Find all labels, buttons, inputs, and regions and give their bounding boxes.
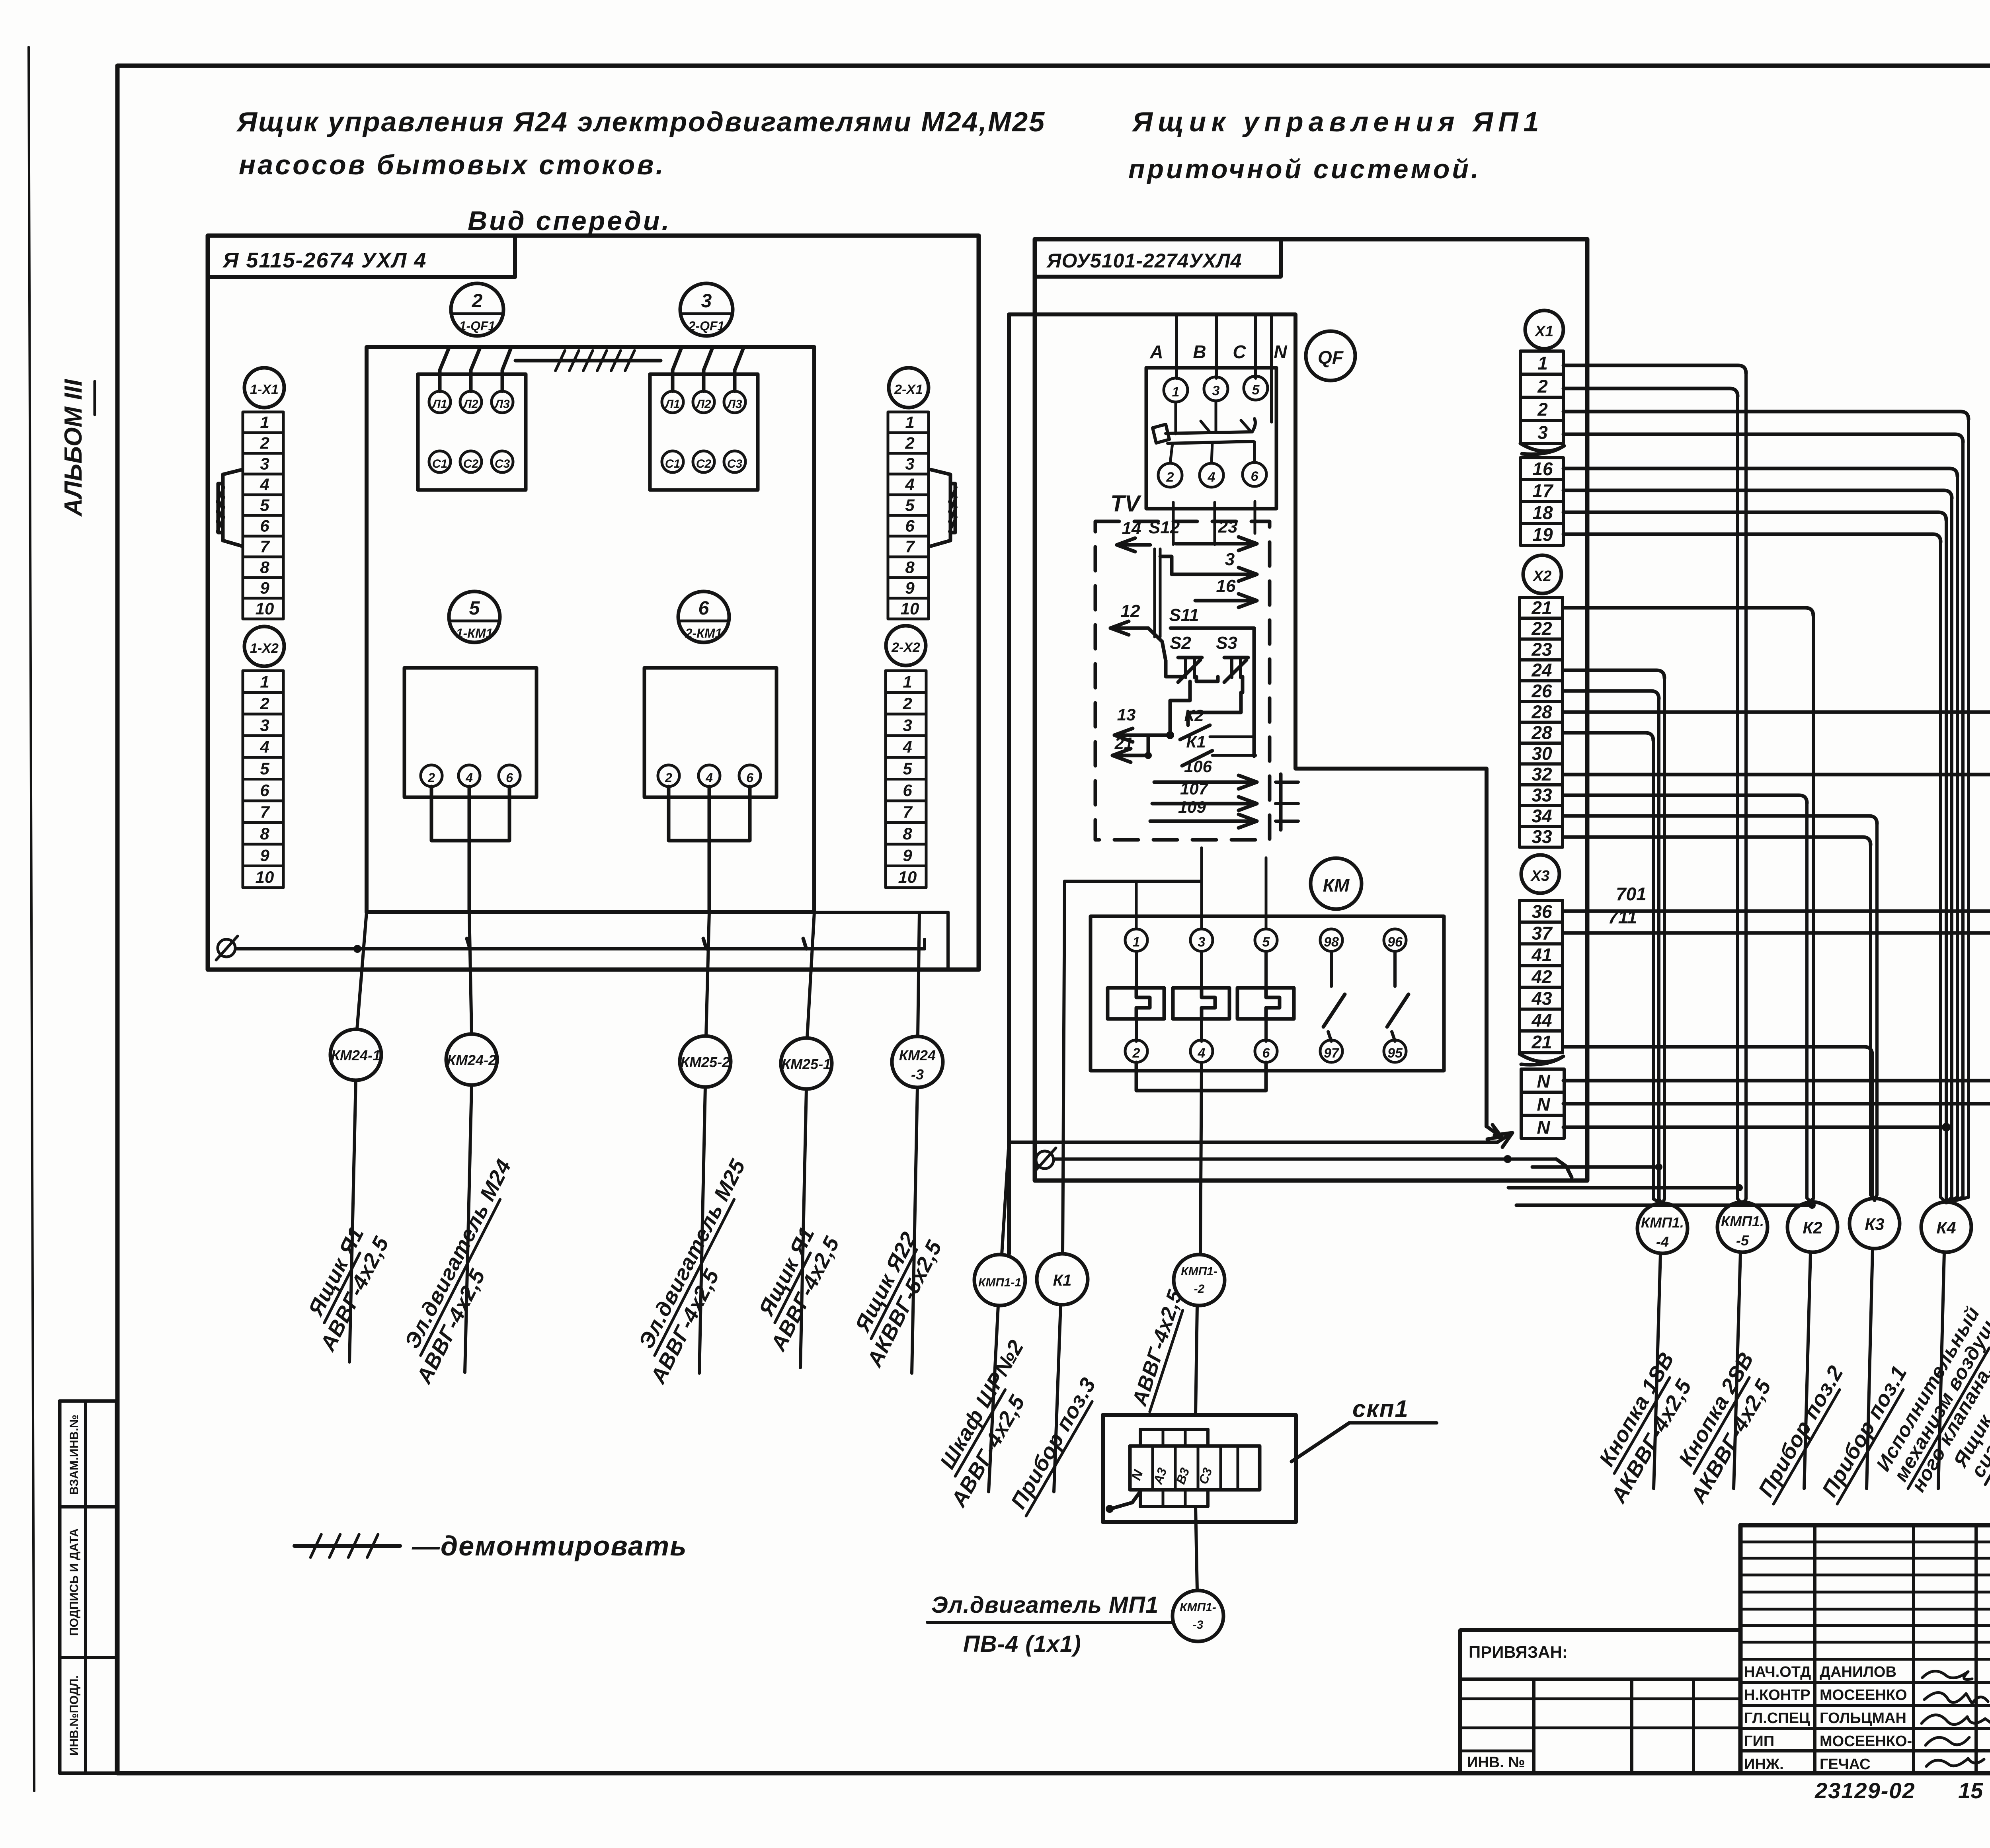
phase wires into QF <box>1175 314 1178 378</box>
svg-text:КМ24-2: КМ24-2 <box>447 1052 496 1068</box>
svg-text:N: N <box>1274 341 1287 362</box>
label box ЯОУ5101-2274УХЛ4 <box>1035 239 1281 277</box>
svg-text:-3: -3 <box>911 1066 924 1083</box>
wire crossing marks on ground bus <box>353 945 361 953</box>
svg-text:19: 19 <box>1532 524 1553 545</box>
svg-text:-3: -3 <box>1193 1618 1204 1631</box>
svg-text:2-Х2: 2-Х2 <box>891 640 920 655</box>
title block grid left <box>1740 1525 1990 1773</box>
wire below К3 <box>1867 1249 1873 1489</box>
svg-text:26: 26 <box>1531 681 1552 701</box>
svg-text:9: 9 <box>903 846 912 865</box>
svg-text:2: 2 <box>665 771 672 785</box>
КМ auxiliary contacts <box>1330 952 1333 986</box>
terminal strip X1 group B <box>1520 458 1563 480</box>
svg-text:К2: К2 <box>1803 1218 1822 1237</box>
contactor box 1-КМ1 <box>404 668 537 797</box>
svg-text:12: 12 <box>1121 601 1140 621</box>
svg-text:5: 5 <box>469 598 480 619</box>
svg-text:28: 28 <box>1531 722 1552 743</box>
svg-text:13: 13 <box>1117 705 1136 724</box>
svg-text:4: 4 <box>1198 1046 1206 1061</box>
svg-text:-2: -2 <box>1194 1282 1205 1296</box>
svg-text:10: 10 <box>256 599 274 618</box>
arrow 16 (right) <box>1195 599 1257 603</box>
wire below К2 <box>1804 1253 1811 1489</box>
svg-text:скп1: скп1 <box>1352 1395 1409 1422</box>
svg-text:КМ: КМ <box>1323 875 1350 896</box>
svg-text:34: 34 <box>1532 806 1552 826</box>
svg-text:S11: S11 <box>1169 605 1199 625</box>
page left scan edge line <box>29 47 34 1791</box>
inner frame of ЯОУ5101 (stepped) <box>1009 314 1487 1254</box>
comb connector right of TV <box>1279 774 1283 830</box>
svg-text:41: 41 <box>1531 944 1552 965</box>
svg-text:4: 4 <box>259 475 269 494</box>
svg-text:Х2: Х2 <box>1532 568 1551 585</box>
terminal strip X1 group A <box>1520 351 1563 374</box>
QF switch bar <box>1166 432 1252 433</box>
svg-text:TV: TV <box>1110 491 1141 517</box>
label box Я5115-2674УХЛ4 <box>208 236 515 277</box>
svg-text:17: 17 <box>1532 480 1554 501</box>
svg-text:3: 3 <box>1225 550 1235 569</box>
cable circle КМ24-2 <box>446 1034 497 1085</box>
svg-text:5: 5 <box>903 759 912 778</box>
svg-text:Ящик управления Я24 электродви: Ящик управления Я24 электродвигателями М… <box>236 106 1046 137</box>
svg-text:КМП1.: КМП1. <box>1641 1214 1684 1231</box>
СКП1 terminal block <box>1130 1446 1260 1490</box>
svg-text:Л1: Л1 <box>664 398 680 411</box>
cable circle КМП1-4 <box>1637 1203 1688 1253</box>
break squiggle X3 <box>1520 1054 1563 1065</box>
svg-text:33: 33 <box>1532 785 1552 806</box>
svg-text:3: 3 <box>260 455 269 473</box>
terminal strip 1-X2 <box>243 671 283 693</box>
svg-text:ВЗАМ.ИНВ.№: ВЗАМ.ИНВ.№ <box>68 1415 81 1495</box>
svg-text:10: 10 <box>901 599 919 618</box>
terminal strip N cells <box>1521 1069 1564 1092</box>
terminal strip 1-X2 header circle <box>244 626 284 666</box>
dashed box TV <box>1095 521 1270 840</box>
cable circle КМП1-3 <box>1173 1590 1223 1641</box>
bottom junction wires to drops <box>1532 1167 1659 1200</box>
cable label Исполнительный механизм воздушного клапана <box>1872 1303 1984 1475</box>
КМ bottom terminals <box>1125 1040 1147 1062</box>
svg-text:Ящик управления ЯП1: Ящик управления ЯП1 <box>1132 106 1544 137</box>
terminal strip X2 <box>1520 597 1563 618</box>
svg-text:насосов бытовых стоков.: насосов бытовых стоков. <box>239 149 665 180</box>
svg-text:Л1: Л1 <box>431 398 447 411</box>
svg-text:1: 1 <box>903 673 912 691</box>
svg-text:N: N <box>1537 1094 1550 1114</box>
svg-text:24: 24 <box>1531 660 1552 681</box>
breaker box 1-QF1 <box>418 374 526 490</box>
СКП1 N jumper to frame <box>1110 1490 1141 1509</box>
cable label Эл.двигатель М24 (КМ24-2) <box>399 1155 517 1355</box>
svg-text:ГОЛЬЦМАН: ГОЛЬЦМАН <box>1820 1710 1906 1727</box>
cable label Ящик сигнализации ЯС <box>1949 1410 1990 1471</box>
terminal strip 1-X1 <box>243 412 283 433</box>
svg-text:21: 21 <box>1531 597 1552 618</box>
svg-text:8: 8 <box>260 824 269 843</box>
svg-text:16: 16 <box>1532 459 1553 479</box>
reference stamp box ПРИВЯЗАН <box>1460 1630 1740 1773</box>
svg-text:4: 4 <box>259 738 269 756</box>
designator circle 6 / 2-КМ1 <box>678 591 729 642</box>
svg-text:8: 8 <box>260 558 269 577</box>
svg-text:2: 2 <box>905 434 914 453</box>
svg-text:Н.КОНТР: Н.КОНТР <box>1744 1687 1811 1704</box>
svg-text:4: 4 <box>705 771 713 785</box>
svg-text:А: А <box>1149 341 1163 362</box>
svg-text:2: 2 <box>472 291 483 312</box>
ground bus with earth symbol (middle box) <box>1036 1151 1054 1169</box>
cable circle К4 <box>1921 1202 1971 1252</box>
svg-text:КМ25-1: КМ25-1 <box>782 1056 831 1072</box>
demounted link wire between breakers <box>515 359 661 363</box>
svg-text:КМ24-1: КМ24-1 <box>331 1047 380 1064</box>
QF pole stubs <box>1174 402 1177 434</box>
svg-text:4: 4 <box>465 771 473 785</box>
arrow into N terminal from frame right leg <box>1487 1125 1501 1139</box>
svg-text:КМП1.: КМП1. <box>1721 1213 1764 1229</box>
svg-text:S3: S3 <box>1216 633 1237 653</box>
svg-text:8: 8 <box>903 824 912 843</box>
svg-text:S2: S2 <box>1170 633 1191 653</box>
QF to TV stubs <box>1172 502 1175 544</box>
svg-text:QF: QF <box>1318 347 1344 368</box>
svg-text:2: 2 <box>427 771 435 785</box>
svg-text:Я 5115-2674 УХЛ 4: Я 5115-2674 УХЛ 4 <box>222 248 427 272</box>
cable circle КМП1-5 <box>1717 1202 1768 1252</box>
svg-text:9: 9 <box>905 579 915 597</box>
svg-text:5: 5 <box>260 759 269 778</box>
terminal strip 2-X1 <box>888 412 929 433</box>
arrow 13 (left) <box>1114 734 1170 737</box>
wire below КМ24-2 <box>465 1085 472 1372</box>
svg-text:6: 6 <box>260 781 269 800</box>
svg-text:6: 6 <box>698 598 709 619</box>
svg-text:МОСЕЕНКО-: МОСЕЕНКО- <box>1820 1733 1912 1750</box>
wires below КМ (2-6 loop, 4 down) <box>1136 1062 1266 1091</box>
svg-text:6: 6 <box>905 517 915 535</box>
svg-text:95: 95 <box>1387 1046 1403 1061</box>
terminal strip 2-X1 header circle <box>889 368 929 408</box>
wire below КМ25-2 <box>699 1087 705 1373</box>
svg-text:109: 109 <box>1178 798 1206 816</box>
QF terminal 5 <box>1244 376 1268 400</box>
svg-text:1: 1 <box>260 673 269 691</box>
svg-text:28: 28 <box>1531 701 1552 722</box>
svg-text:КМ25-2: КМ25-2 <box>681 1054 730 1070</box>
breaker designator circle QF <box>1306 331 1355 381</box>
svg-text:К1: К1 <box>1186 732 1206 751</box>
svg-text:В: В <box>1193 341 1206 362</box>
svg-text:Х1: Х1 <box>1534 323 1553 340</box>
svg-text:6: 6 <box>1251 469 1259 484</box>
svg-text:37: 37 <box>1532 923 1553 943</box>
svg-text:-5: -5 <box>1736 1232 1749 1249</box>
contactor box 2-КМ1 <box>644 668 776 797</box>
svg-text:ИНЖ.: ИНЖ. <box>1744 1756 1784 1773</box>
cable label Прибор поз.1 <box>1816 1362 1912 1504</box>
wire N2 to К5 drop <box>1563 1102 1990 1106</box>
wires into 1-QF1 terminals <box>440 348 449 391</box>
cable label Шкаф ШР№2 (КМП1-1) <box>934 1336 1029 1476</box>
svg-text:С1: С1 <box>432 457 447 470</box>
arrow 23 (right) <box>1176 542 1257 546</box>
wire below КМ25-1 <box>800 1089 806 1368</box>
arrow 106 <box>1154 781 1257 784</box>
cable circle КМ24-3 <box>892 1036 943 1087</box>
svg-text:2: 2 <box>1537 376 1548 396</box>
svg-text:4: 4 <box>902 738 912 756</box>
contactor designator circle КМ <box>1311 858 1362 909</box>
svg-text:30: 30 <box>1532 743 1552 764</box>
svg-text:С3: С3 <box>727 457 743 470</box>
cable circle КМП1-2 <box>1174 1255 1225 1306</box>
svg-text:5: 5 <box>1252 382 1260 398</box>
terminal strip X1 header circle <box>1525 310 1563 349</box>
svg-text:С2: С2 <box>696 457 712 470</box>
svg-text:1-QF1: 1-QF1 <box>459 319 496 333</box>
svg-text:К4: К4 <box>1936 1218 1956 1237</box>
svg-text:1: 1 <box>905 413 914 432</box>
svg-text:6: 6 <box>506 771 513 785</box>
svg-text:2: 2 <box>1166 470 1174 485</box>
svg-text:33: 33 <box>1532 826 1552 847</box>
svg-text:ДАНИЛОВ: ДАНИЛОВ <box>1820 1664 1896 1680</box>
svg-text:ПОДПИСЬ И ДАТА: ПОДПИСЬ И ДАТА <box>68 1528 81 1636</box>
cable bracket right of 2-X1 (demounted) <box>931 470 950 546</box>
svg-text:2: 2 <box>902 694 912 713</box>
designator circle 5 / 1-КМ1 <box>449 591 500 642</box>
QF terminal 6 <box>1243 462 1266 486</box>
wire grid from terminals to cables <box>1563 365 1746 373</box>
cable label АВВГ-4х2,5 (КМП1-2) <box>1127 1287 1188 1411</box>
svg-text:43: 43 <box>1531 988 1552 1009</box>
svg-text:2: 2 <box>1132 1046 1140 1061</box>
cable label Кнопка 1SB <box>1593 1348 1680 1473</box>
cable label Ящик Я1 / АВВГ-4х2,5 (КМ24-1) <box>302 1223 370 1323</box>
svg-text:К3: К3 <box>1865 1215 1884 1233</box>
svg-text:2: 2 <box>259 434 269 453</box>
svg-text:3: 3 <box>1537 422 1548 443</box>
svg-text:8: 8 <box>905 558 915 577</box>
cable circle КМ25-2 <box>680 1036 731 1087</box>
svg-text:3: 3 <box>1212 383 1220 398</box>
wires into 2-QF1 terminals <box>673 348 681 391</box>
arrow 14 (left) <box>1117 543 1150 547</box>
legend demounted symbol <box>295 1544 400 1548</box>
svg-text:7: 7 <box>903 803 913 822</box>
svg-text:701: 701 <box>1616 884 1647 904</box>
svg-text:23: 23 <box>1531 639 1552 660</box>
cable label Кнопка 2SB <box>1672 1348 1759 1473</box>
wire below К1 <box>1054 1305 1061 1492</box>
terminal strip 1-X1 header circle <box>244 368 284 408</box>
svg-text:Вид спереди.: Вид спереди. <box>468 206 671 236</box>
wire below КМ24-3 <box>912 1087 917 1373</box>
svg-text:10: 10 <box>898 868 917 886</box>
cable circle КМ24-1 <box>330 1029 381 1080</box>
svg-text:7: 7 <box>260 537 270 556</box>
svg-text:6: 6 <box>746 771 753 785</box>
svg-text:2: 2 <box>1537 399 1548 420</box>
svg-text:3: 3 <box>260 716 269 735</box>
svg-text:Х3: Х3 <box>1530 868 1549 884</box>
svg-text:4: 4 <box>905 475 914 494</box>
cable circle КМП1-1 <box>974 1255 1025 1306</box>
arrow 12 (left) <box>1110 626 1148 630</box>
svg-text:22: 22 <box>1531 618 1552 639</box>
cable label Ящик Я22 (КМ24-3) <box>849 1228 922 1339</box>
svg-text:18: 18 <box>1532 502 1553 523</box>
svg-text:К2: К2 <box>1184 706 1204 725</box>
svg-text:ПВ-4 (1х1): ПВ-4 (1х1) <box>963 1631 1081 1657</box>
designator circle 2 / 1-QF1 <box>451 283 503 336</box>
inner mounting panel box <box>367 347 814 912</box>
svg-text:32: 32 <box>1532 764 1552 784</box>
svg-text:3: 3 <box>903 716 912 735</box>
svg-text:15: 15 <box>1958 1778 1983 1803</box>
svg-text:6: 6 <box>903 781 912 800</box>
КМ main pole contacts <box>1108 988 1164 1019</box>
svg-text:КМ24: КМ24 <box>899 1047 936 1064</box>
svg-text:1: 1 <box>1172 384 1180 400</box>
svg-text:5: 5 <box>1262 935 1270 950</box>
svg-text:С3: С3 <box>495 457 510 470</box>
vertical text АЛЬБОМ III <box>60 379 87 517</box>
wire N3 to К4 drop <box>1563 1126 1946 1129</box>
svg-text:7: 7 <box>905 537 915 556</box>
QF terminal 1 <box>1164 378 1188 402</box>
wires below 2-КМ1 (2-6 loop and 4 down) <box>669 786 750 841</box>
arrow 21 (left) <box>1112 754 1148 757</box>
wire below К4 <box>1938 1253 1944 1489</box>
svg-text:ИНВ.№ПОДЛ.: ИНВ.№ПОДЛ. <box>68 1675 81 1756</box>
svg-text:АЛЬБОМ III: АЛЬБОМ III <box>60 379 87 517</box>
svg-text:ЯОУ5101-2274УХЛ4: ЯОУ5101-2274УХЛ4 <box>1046 250 1242 272</box>
switch S12 double line <box>1153 549 1156 637</box>
svg-text:3: 3 <box>1198 935 1206 950</box>
wire to КМП1-1 <box>1002 1254 1009 1255</box>
cable bracket left of 1-X1 (demounted) <box>223 470 242 546</box>
cable label Прибор поз.3 (К1) <box>1005 1374 1101 1516</box>
wire to cable КМ25-1 <box>807 912 814 1038</box>
svg-text:107: 107 <box>1180 779 1209 798</box>
cable label Эл.двигатель М25 (КМ25-2) <box>633 1155 751 1355</box>
svg-text:14: 14 <box>1122 519 1141 538</box>
svg-text:1: 1 <box>1537 353 1548 373</box>
svg-text:5: 5 <box>905 496 915 515</box>
svg-text:2-КМ1: 2-КМ1 <box>685 626 722 640</box>
svg-text:Эл.двигатель МП1: Эл.двигатель МП1 <box>931 1592 1159 1618</box>
cable circle К3 <box>1850 1198 1900 1249</box>
designator circle 3 / 2-QF1 <box>680 283 733 336</box>
svg-text:МОСЕЕНКО: МОСЕЕНКО <box>1820 1687 1907 1704</box>
wire to cable КМ24-2 <box>469 912 472 1034</box>
svg-text:4: 4 <box>1208 470 1215 485</box>
svg-text:КМП1-: КМП1- <box>1180 1601 1216 1614</box>
svg-text:106: 106 <box>1184 757 1212 776</box>
svg-text:3: 3 <box>701 291 712 312</box>
svg-text:Л3: Л3 <box>494 398 510 411</box>
cable circle КМ25-1 <box>781 1038 832 1089</box>
svg-text:ГЛ.СПЕЦ: ГЛ.СПЕЦ <box>1744 1710 1810 1727</box>
QF terminal 3 <box>1204 377 1228 401</box>
svg-text:9: 9 <box>260 579 269 597</box>
svg-text:44: 44 <box>1531 1010 1552 1030</box>
svg-text:16: 16 <box>1216 576 1236 596</box>
svg-text:—демонтировать: —демонтировать <box>412 1530 687 1561</box>
wire below КМ24-1 <box>349 1080 356 1362</box>
QF terminal 4 <box>1200 463 1223 487</box>
terminal strip X3 header circle <box>1521 855 1559 893</box>
svg-text:К1: К1 <box>1053 1272 1072 1289</box>
cabinet box Я5115-2674УХЛ4 <box>208 236 979 970</box>
svg-text:21: 21 <box>1114 734 1134 753</box>
wire below КМП1-4 <box>1654 1254 1660 1489</box>
svg-text:7: 7 <box>260 803 270 822</box>
svg-text:2: 2 <box>259 694 269 713</box>
svg-text:9: 9 <box>260 846 269 865</box>
svg-text:36: 36 <box>1532 901 1552 922</box>
svg-text:С1: С1 <box>665 457 680 470</box>
svg-text:НАЧ.ОТД: НАЧ.ОТД <box>1744 1664 1811 1680</box>
cable circle К1 <box>1037 1254 1088 1305</box>
arrow 3 (right) <box>1172 573 1257 576</box>
svg-text:1: 1 <box>260 413 269 432</box>
svg-text:1-Х1: 1-Х1 <box>250 382 279 397</box>
box СКП1 <box>1103 1415 1296 1522</box>
cable label Ящик Я1 (КМ25-1) <box>753 1223 820 1323</box>
КМ input stubs <box>1200 848 1203 929</box>
svg-text:96: 96 <box>1387 935 1403 950</box>
svg-text:КМП1-1: КМП1-1 <box>978 1276 1021 1289</box>
К1 tap wire <box>1065 880 1202 883</box>
svg-text:Л2: Л2 <box>462 398 478 411</box>
svg-text:98: 98 <box>1324 935 1339 950</box>
svg-text:приточной системой.: приточной системой. <box>1128 154 1481 184</box>
arrow 107 <box>1152 802 1257 806</box>
wire through СКП1 down <box>1196 1507 1197 1590</box>
cabinet box ЯОУ5101-2274УХЛ4 <box>1035 239 1587 1181</box>
svg-text:6: 6 <box>260 517 269 535</box>
svg-text:ГИП: ГИП <box>1744 1733 1774 1750</box>
svg-text:10: 10 <box>256 868 274 886</box>
svg-text:КМП1-: КМП1- <box>1181 1265 1217 1278</box>
КМ top terminals <box>1125 929 1147 951</box>
terminal strip X2 header circle <box>1523 555 1561 593</box>
svg-text:S12: S12 <box>1149 518 1180 537</box>
wire to cable КМ25-2 <box>706 912 709 1036</box>
svg-text:-4: -4 <box>1656 1233 1669 1250</box>
wire stub over КМ24-3 <box>814 911 948 914</box>
svg-text:2-QF1: 2-QF1 <box>688 319 725 333</box>
cable circle К2 <box>1787 1202 1838 1252</box>
inner frame bottom wire with arrow to N <box>1009 1141 1497 1144</box>
svg-text:С: С <box>1233 341 1246 362</box>
svg-text:Л2: Л2 <box>695 398 711 411</box>
bottom-left inventory strip <box>60 1401 117 1773</box>
cable label Прибор поз.2 <box>1752 1362 1849 1504</box>
svg-text:ГЕЧАС: ГЕЧАС <box>1820 1756 1871 1773</box>
svg-text:Л3: Л3 <box>726 398 742 411</box>
svg-text:6: 6 <box>1262 1046 1270 1061</box>
S11 contact line <box>1171 628 1254 756</box>
